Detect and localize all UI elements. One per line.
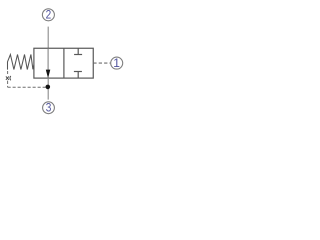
- junction dot: [46, 85, 51, 90]
- valve body: [34, 48, 93, 78]
- port circle 3: [43, 101, 55, 115]
- svg-text:3: 3: [46, 101, 52, 115]
- flow arrowhead: [46, 70, 51, 79]
- pilot gauge arc: [9, 76, 12, 80]
- port circle 1: [111, 56, 123, 70]
- wire port2 to valve: [47, 27, 49, 49]
- spring: [8, 55, 34, 70]
- dashed lead to port 1: [93, 62, 110, 64]
- blocked port T top: [74, 48, 82, 54]
- flow path line: [47, 48, 49, 70]
- pilot dashed line horizontal: [8, 86, 46, 88]
- blocked port T bottom: [74, 72, 82, 79]
- svg-text:1: 1: [113, 56, 120, 70]
- pilot dashed line vertical: [7, 71, 9, 76]
- wire valve to port3: [47, 78, 49, 100]
- svg-text:2: 2: [46, 8, 52, 22]
- pilot blocked x mark: [6, 76, 9, 79]
- position divider: [63, 48, 65, 78]
- port circle 2: [42, 8, 54, 22]
